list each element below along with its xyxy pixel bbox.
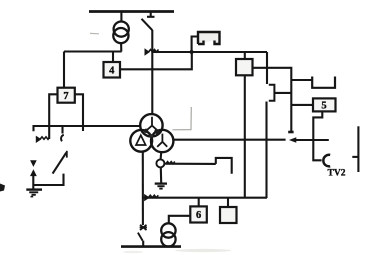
earthing switch QS2 blade (open) with tick	[53, 151, 67, 174]
node A junction dot	[190, 50, 194, 54]
svg-text:4: 4	[109, 65, 115, 76]
voltage transformer TV3 (two circles, bottom)	[161, 223, 175, 246]
arrow mark on wire F	[290, 138, 295, 142]
wire D horizontal (y=197.7)	[143, 197, 267, 199]
wire: stub down to box B1	[244, 52, 246, 59]
CT zigzag mark on wire A	[145, 50, 158, 55]
disconnector QS1 contact tick under busbar	[147, 12, 155, 17]
wire: VT stub from busbar	[120, 12, 122, 23]
busbar W2 (bottom)	[121, 245, 181, 248]
wire V4 upper: wire A end down to bracket	[266, 52, 268, 84]
scan artifact: bottom smudge	[123, 249, 231, 253]
fuse/cross mark X on V5	[140, 225, 147, 230]
neutral CT small circle	[156, 159, 164, 167]
wire: bracket tap to V3	[274, 92, 291, 94]
wire: lead to box 5	[291, 104, 313, 106]
three-winding transformer T1: left circle (delta)	[130, 130, 152, 152]
wire A horizontal (y=52)	[152, 51, 267, 53]
earthing switch QS2 stub and hook	[61, 126, 64, 141]
disconnector QS1 blade (open)	[142, 19, 153, 30]
three-winding transformer T1: right circle (star)	[151, 130, 173, 152]
wire: box 5 step down to TV2	[313, 111, 322, 160]
svg-text:5: 5	[321, 101, 326, 112]
CT bracket box (open-bottom rectangle)	[198, 32, 220, 44]
wire: lead up-left to CT bracket box	[192, 37, 198, 53]
wire V1: main vertical to transformer	[151, 30, 153, 115]
wire: box 7 left lead down with zigzag	[49, 94, 57, 139]
wire V4 lower: bracket down to wire D	[265, 102, 267, 199]
wire: lead to winding U shape	[291, 79, 312, 81]
wire: neutral tap with zigzag to corner	[164, 162, 215, 164]
label TV2	[328, 169, 346, 179]
bracket contact on V4	[269, 85, 275, 101]
wire: lead down to relay box 7	[63, 52, 65, 88]
box B2 (empty)	[220, 207, 237, 223]
wire B: box 4 output to node A (y=69.3)	[120, 52, 192, 69]
wire: stub to box 6	[198, 198, 200, 207]
CT zigzag mark on wire D	[145, 195, 158, 200]
faint pencil line from node A area to transformer	[173, 107, 192, 130]
CT zigzag mark below box 7 lead	[37, 137, 50, 142]
arrester FV (gap arrows)	[31, 161, 36, 189]
wire: QS2 bottom to arrester branch	[33, 174, 63, 185]
scan artifact: faint dashes left of TV1	[90, 32, 99, 34]
wire: B1 right lead to V3	[253, 68, 292, 131]
wire E horizontal (y=51.5)	[64, 50, 122, 52]
three-winding transformer T1: top circle (star)	[140, 114, 162, 136]
voltage transformer TV1 (two circles, top left)	[113, 22, 129, 44]
disconnector QS3 blade (open, bottom)	[138, 233, 143, 247]
wire V2: below B1 down to wire D	[244, 75, 246, 198]
winding U symbol (open-top box)	[312, 77, 335, 88]
wire: box 7 right lead down to wire G	[75, 94, 83, 131]
wire V3 foot (ends above wire F)	[288, 131, 293, 134]
ground symbol (left)	[26, 190, 42, 197]
svg-text:TV2: TV2	[328, 169, 346, 179]
ground symbol (transformer neutral)	[155, 184, 167, 189]
box B1 (empty)	[236, 59, 253, 75]
wire: stub down to relay box 4	[112, 52, 114, 63]
busbar W1 (top)	[89, 10, 174, 13]
svg-text:7: 7	[63, 91, 68, 102]
TV2 C-contact (semicircle open right)	[323, 155, 330, 167]
relay box 6	[190, 206, 207, 222]
relay box 7	[58, 88, 75, 103]
wire F: transformer right lead (y=139.7)	[173, 139, 328, 141]
wire G: left feeder horizontal (y=126) with end tick	[34, 126, 141, 131]
wire: neutral down to ground	[160, 167, 162, 183]
scan artifact: left edge blob	[0, 184, 5, 192]
wire: TV1 bottom lead down to node E	[120, 43, 122, 52]
wire: box 6 left lead to TV3	[169, 216, 191, 224]
wire V5: delta lead down to disconnector	[142, 151, 144, 225]
TV2 mating contact (tick + vertical at right)	[352, 126, 358, 172]
svg-text:6: 6	[196, 210, 201, 221]
relay box 5	[313, 98, 336, 111]
wire: corner hook right of neutral tap	[216, 158, 232, 174]
scan blobs at transformer circle overlaps	[144, 129, 159, 138]
wire: stub to box B2	[227, 198, 229, 207]
relay box 4	[104, 62, 121, 78]
wire: star neutral lead to small circle	[160, 152, 163, 159]
